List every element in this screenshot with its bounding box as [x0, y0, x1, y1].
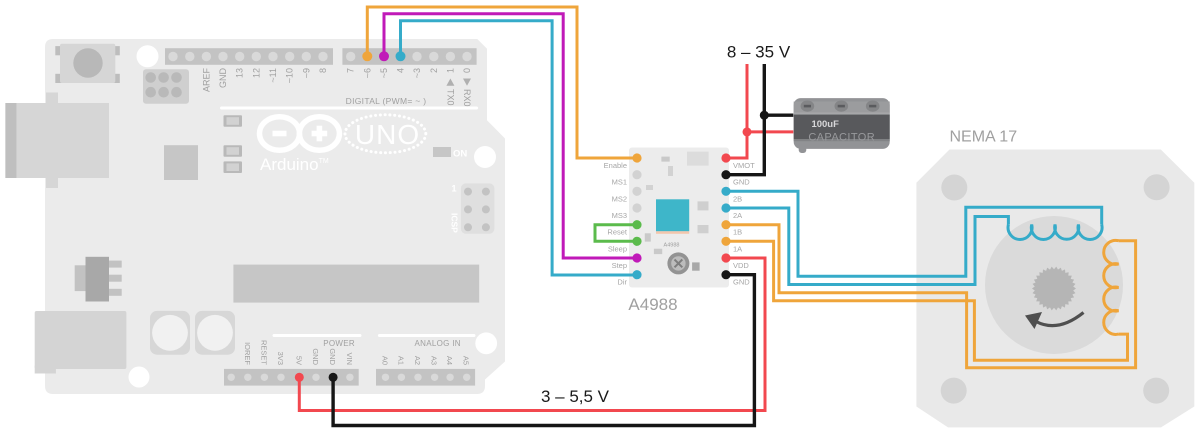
svg-text:Enable: Enable	[604, 161, 627, 170]
svg-text:Sleep: Sleep	[608, 244, 627, 253]
svg-text:GND: GND	[733, 178, 750, 187]
svg-text:100uF: 100uF	[811, 119, 839, 130]
svg-text:A3: A3	[430, 356, 439, 365]
svg-text:POWER: POWER	[323, 339, 355, 348]
svg-text:ICSP: ICSP	[450, 213, 460, 233]
svg-text:ArduinoTM: ArduinoTM	[260, 155, 329, 174]
svg-text:A2: A2	[413, 356, 422, 365]
svg-text:12: 12	[251, 68, 261, 78]
svg-text:7: 7	[346, 68, 356, 73]
svg-text:MS1: MS1	[612, 178, 627, 187]
svg-text:8 – 35 V: 8 – 35 V	[727, 43, 791, 62]
svg-text:MS3: MS3	[612, 211, 627, 220]
svg-text:3V3: 3V3	[276, 352, 285, 365]
svg-text:A4: A4	[445, 356, 454, 365]
svg-text:2B: 2B	[733, 194, 742, 203]
svg-text:Dir: Dir	[617, 278, 627, 287]
svg-text:GND: GND	[733, 278, 750, 287]
svg-text:0: 0	[462, 68, 472, 73]
svg-text:GND: GND	[328, 348, 337, 365]
svg-text:A4988: A4988	[628, 295, 677, 314]
svg-text:8: 8	[318, 68, 328, 73]
svg-text:ON: ON	[453, 149, 467, 160]
svg-text:VIN: VIN	[345, 352, 354, 365]
svg-text:VMOT: VMOT	[733, 161, 755, 170]
svg-text:13: 13	[235, 68, 245, 78]
svg-text:TX0: TX0	[446, 89, 456, 106]
svg-text:A5: A5	[462, 356, 471, 365]
svg-text:~9: ~9	[301, 68, 311, 78]
svg-text:MS2: MS2	[612, 194, 627, 203]
svg-text:VDD: VDD	[733, 261, 749, 270]
svg-text:~11: ~11	[268, 68, 278, 83]
svg-text:A1: A1	[396, 356, 405, 365]
svg-text:~10: ~10	[285, 68, 295, 83]
svg-text:GND: GND	[218, 68, 228, 89]
svg-text:RX0: RX0	[462, 89, 472, 107]
svg-text:2A: 2A	[733, 211, 742, 220]
svg-text:IOREF: IOREF	[243, 342, 252, 365]
svg-text:1: 1	[445, 68, 455, 73]
svg-text:DIGITAL (PWM= ~ ): DIGITAL (PWM= ~ )	[346, 96, 427, 106]
svg-text:1B: 1B	[733, 228, 742, 237]
svg-text:~6: ~6	[362, 68, 372, 78]
svg-text:RESET: RESET	[259, 340, 268, 365]
svg-text:UNO: UNO	[355, 119, 420, 150]
svg-text:A0: A0	[381, 356, 390, 365]
svg-text:2: 2	[429, 68, 439, 73]
svg-text:~3: ~3	[412, 68, 422, 78]
svg-text:4: 4	[396, 68, 406, 73]
svg-text:AREF: AREF	[201, 68, 211, 93]
svg-text:Reset: Reset	[607, 228, 628, 237]
svg-text:1: 1	[452, 184, 457, 194]
svg-text:A4988: A4988	[664, 243, 680, 249]
svg-text:5V: 5V	[294, 356, 303, 365]
svg-text:GND: GND	[311, 348, 320, 365]
svg-text:Step: Step	[612, 261, 627, 270]
svg-text:CAPACITOR: CAPACITOR	[808, 132, 875, 144]
svg-text:~5: ~5	[379, 68, 389, 78]
svg-text:ANALOG IN: ANALOG IN	[415, 339, 461, 348]
svg-text:1A: 1A	[733, 244, 742, 253]
svg-text:3 – 5,5 V: 3 – 5,5 V	[541, 387, 610, 406]
svg-text:NEMA 17: NEMA 17	[950, 129, 1018, 146]
